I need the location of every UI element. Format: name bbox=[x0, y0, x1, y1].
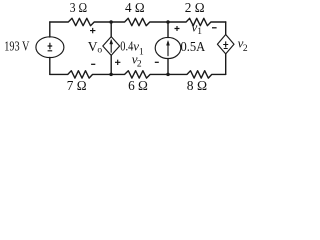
svg-text:1: 1 bbox=[197, 27, 202, 37]
svg-text:2: 2 bbox=[137, 59, 142, 69]
voltage source 193V ellipse bbox=[36, 37, 64, 58]
plus-minus inside 193V source bbox=[48, 43, 53, 51]
minus of Vo bbox=[91, 63, 95, 65]
minus of v1 bbox=[212, 27, 217, 29]
wire: current source stem lower bbox=[167, 59, 169, 75]
node dot bottom-right junction bbox=[166, 73, 170, 77]
plus-minus inside v2 source bbox=[223, 41, 228, 48]
plus of v2 bottom bbox=[115, 60, 120, 65]
wire: right branch lower bbox=[225, 54, 227, 75]
svg-text:0.5A: 0.5A bbox=[181, 40, 206, 55]
wire: dep source stem lower bbox=[110, 55, 112, 74]
svg-text:7 Ω: 7 Ω bbox=[67, 79, 87, 94]
svg-text:2: 2 bbox=[243, 44, 248, 54]
svg-text:2 Ω: 2 Ω bbox=[185, 1, 205, 16]
svg-text:193 V: 193 V bbox=[4, 38, 29, 53]
svg-text:6 Ω: 6 Ω bbox=[128, 79, 148, 94]
arrow inside dep current source bbox=[110, 44, 112, 53]
plus of v1 bbox=[175, 26, 180, 31]
svg-text:o: o bbox=[97, 46, 102, 56]
minus of v2 bottom bbox=[155, 61, 159, 63]
plus of Vo bbox=[90, 28, 95, 33]
node dot top-right junction bbox=[166, 20, 170, 24]
dependent voltage source v2 diamond bbox=[217, 35, 234, 54]
dependent current source 0.4v1 diamond bbox=[103, 37, 120, 56]
node dot top-left junction bbox=[109, 20, 113, 24]
svg-text:8 Ω: 8 Ω bbox=[187, 79, 207, 94]
svg-text:V: V bbox=[88, 40, 98, 55]
wire: current source stem upper bbox=[167, 22, 169, 38]
wire: left branch lower bbox=[49, 58, 51, 75]
svg-text:1: 1 bbox=[139, 48, 144, 58]
wire: dep source stem upper bbox=[110, 22, 112, 37]
wire: bottom rail with resistor R4 R5 R6 zigzags bbox=[50, 71, 226, 78]
svg-text:4 Ω: 4 Ω bbox=[125, 1, 145, 16]
wire: right branch upper bbox=[225, 22, 227, 35]
current source 0.5A ellipse bbox=[155, 37, 181, 58]
svg-text:3 Ω: 3 Ω bbox=[70, 1, 87, 16]
node dot bottom-left junction bbox=[109, 73, 113, 77]
wire: top rail with resistor R1 R2 R3 zigzags bbox=[50, 18, 226, 25]
wire: left branch upper bbox=[49, 22, 51, 37]
arrow inside 0.5A source bbox=[167, 45, 169, 56]
